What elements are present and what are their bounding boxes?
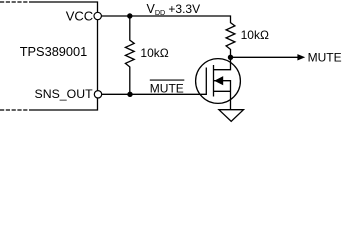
- svg-text:SNS_OUT: SNS_OUT: [35, 87, 94, 101]
- svg-text:MUTE: MUTE: [308, 51, 342, 65]
- svg-text:10kΩ: 10kΩ: [241, 28, 269, 42]
- svg-text:VCC: VCC: [66, 8, 93, 23]
- svg-text:10kΩ: 10kΩ: [140, 46, 168, 60]
- svg-text:VDD+3.3V: VDD+3.3V: [147, 2, 201, 17]
- svg-text:MUTE: MUTE: [150, 82, 184, 96]
- svg-text:TPS389001: TPS389001: [20, 44, 88, 59]
